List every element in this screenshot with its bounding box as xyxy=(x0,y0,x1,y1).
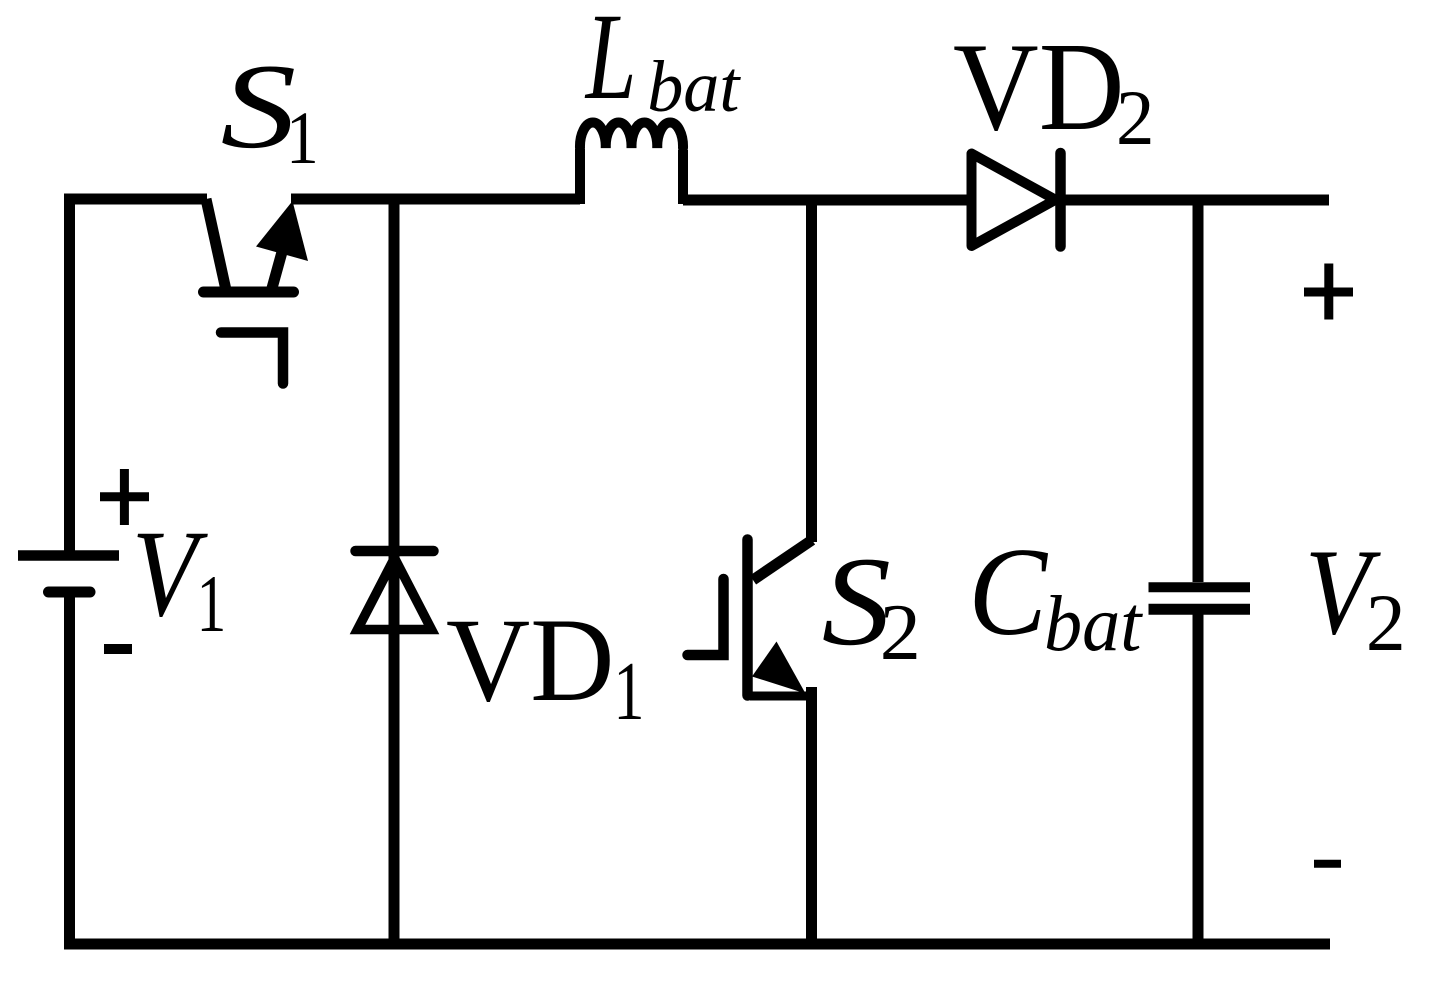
wire Cbat branch lower vertical xyxy=(1193,611,1204,944)
wire left vertical lower xyxy=(64,592,75,950)
wire VD1 branch vertical xyxy=(389,199,400,944)
diode VD2 xyxy=(972,153,1061,247)
transistor S1 xyxy=(204,199,309,384)
svg-text:2: 2 xyxy=(1116,74,1154,161)
wire top inductor-to-VD2 segment xyxy=(683,195,967,206)
svg-text:bat: bat xyxy=(647,46,741,127)
inductor Lbat xyxy=(580,123,683,204)
svg-text:S: S xyxy=(221,39,297,173)
svg-text:L: L xyxy=(584,0,636,125)
svg-text:VD: VD xyxy=(953,18,1124,157)
transistor S2 xyxy=(688,540,813,697)
wire top middle segment xyxy=(291,194,580,205)
battery V1 xyxy=(18,556,119,593)
wire top-left segment xyxy=(64,194,207,205)
svg-text:bat: bat xyxy=(1044,578,1144,667)
svg-text:1: 1 xyxy=(286,97,319,180)
wire left vertical upper xyxy=(64,194,75,556)
capacitor Cbat xyxy=(1149,587,1251,609)
svg-text:2: 2 xyxy=(1366,578,1406,668)
battery minus sign xyxy=(104,644,132,654)
diode VD1 xyxy=(356,551,434,630)
wire S2 branch collector vertical xyxy=(806,200,817,542)
svg-text:1: 1 xyxy=(197,559,227,649)
wire S2 branch emitter vertical xyxy=(806,687,817,944)
wire Cbat branch upper vertical xyxy=(1193,200,1204,582)
output plus sign xyxy=(1304,264,1353,320)
svg-text:1: 1 xyxy=(613,645,644,737)
svg-text:2: 2 xyxy=(880,588,921,677)
output minus sign xyxy=(1314,860,1341,868)
battery plus sign xyxy=(100,469,149,525)
wire top VD2-to-right segment xyxy=(1060,195,1329,206)
svg-text:VD: VD xyxy=(446,593,614,726)
svg-text:C: C xyxy=(968,523,1048,662)
wire bottom xyxy=(64,939,1330,950)
